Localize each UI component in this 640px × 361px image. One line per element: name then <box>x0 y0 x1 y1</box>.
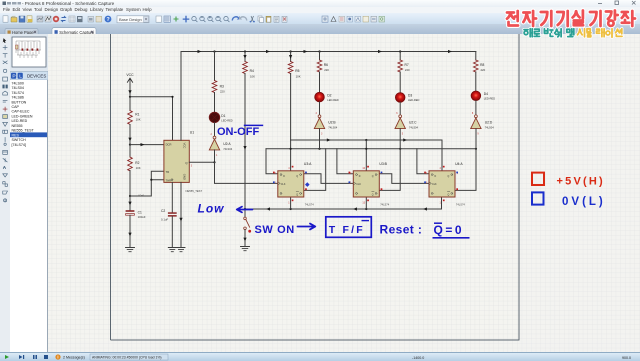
wire U2:C input down to Qbar loop <box>399 129 401 149</box>
node R2/C1/THR junction <box>129 195 131 197</box>
LED D3 (on) <box>395 93 419 103</box>
wire switch top stub <box>244 209 246 217</box>
wire top VCC rail <box>181 51 476 53</box>
node rail R3 <box>213 50 215 52</box>
node rail R6 <box>318 50 320 52</box>
wire U4:A D feed <box>417 149 429 174</box>
node reset/U3:A CLR <box>290 208 292 210</box>
node fb/U3:B loop <box>399 148 401 150</box>
transistor-like inverter U2:A 74LS04 <box>209 133 232 157</box>
wire 555 R pin to top rail <box>180 52 182 141</box>
wire C1 node to TR/THR pins <box>130 171 164 196</box>
node 555 VCC drop <box>171 96 173 98</box>
wire R2 bottom to C1 node <box>129 171 131 197</box>
ground (555) <box>177 248 185 252</box>
flip-flop U3:B 74LS74 <box>349 162 390 206</box>
sheet border <box>111 34 520 340</box>
wire R4 column top <box>244 52 246 62</box>
wire R8 column from rail corner <box>475 52 477 61</box>
legend +5V(H) red <box>532 173 605 188</box>
ground (switch) <box>241 247 250 251</box>
node rail R4 <box>244 50 246 52</box>
wire U3:A CLR stub <box>290 197 292 209</box>
wire D1 to U2:A bubble <box>214 123 216 137</box>
title bar <box>0 0 640 13</box>
wire U3:A D feed <box>266 149 278 174</box>
wire R4 to switch node <box>244 74 246 210</box>
wire C1 top stub <box>129 196 131 210</box>
wire R2 top stub <box>129 145 131 157</box>
resistor R8 <box>473 60 485 72</box>
wire switch to ground <box>244 230 246 247</box>
preview window <box>12 37 46 67</box>
wire junction to 555 DC pin <box>130 144 164 146</box>
resistor R4 <box>243 62 255 79</box>
wire U3:B D feed <box>337 149 353 174</box>
annotation ON-OFF <box>217 125 263 137</box>
wire R3 to D1 <box>214 93 216 113</box>
annotation left arrow <box>237 207 253 213</box>
main toolbar <box>0 13 640 26</box>
status bar <box>0 352 640 361</box>
wire U2:B input down <box>319 129 321 149</box>
node fb/U2:B input <box>318 148 320 150</box>
wire U3:A Qbar loop <box>304 149 326 191</box>
wire C2 to ground <box>171 217 173 248</box>
switch SW (button) <box>244 217 251 233</box>
flip-flop U4:A 74LS74 <box>424 162 465 206</box>
annotation Reset : Q=0 <box>380 223 470 238</box>
inverter U2:C 74LS04 <box>395 112 419 136</box>
capacitor C2 <box>161 209 177 222</box>
node fb/U3:B PR cross <box>365 148 367 150</box>
node rail R7 <box>399 50 401 52</box>
power symbol VCC <box>126 73 134 85</box>
wire R1 top stub <box>129 97 131 111</box>
resistor R2 <box>128 157 141 171</box>
node fb/U2:D input <box>475 148 477 150</box>
annotation right arrow <box>298 224 316 230</box>
wire R1 to junction <box>129 125 131 145</box>
op-amp U1 NE555 body <box>164 140 189 182</box>
resistor R5 <box>288 62 300 79</box>
wire U3:B CLR stub <box>365 197 367 209</box>
left vertical tool strip <box>0 34 11 352</box>
resistor R1 <box>128 111 141 125</box>
wire U2:D input down to Qbar loop <box>475 129 477 149</box>
wire Q node down and to U3:A CLK <box>215 162 278 183</box>
ground (C2) <box>168 248 176 252</box>
wire R5 column top <box>290 52 292 62</box>
wire 555 Q output <box>189 161 214 163</box>
wire R6 column top <box>319 52 321 61</box>
wire U3:B PR stub <box>365 140 367 171</box>
P L DEVICES header <box>10 72 48 81</box>
tab row <box>0 24 640 34</box>
resistor R6 <box>317 60 329 72</box>
wire R6 to D2 <box>319 72 321 92</box>
LED D1 (off) <box>209 112 233 122</box>
node switch/reset junction <box>244 208 246 210</box>
LED D2 (on) <box>315 92 339 102</box>
wire D2 to U2:B <box>319 102 321 115</box>
device list <box>10 80 47 352</box>
node rail R5 <box>290 50 292 52</box>
wire U3:B Q to U4:A CLK <box>379 174 429 184</box>
wire R7 column top <box>399 52 401 61</box>
node reset/U3:B CLR <box>365 208 367 210</box>
wire R3 column top <box>214 52 216 81</box>
wire C1 to ground <box>129 215 131 247</box>
wire D3 to U2:C <box>399 102 401 115</box>
resistor R3 <box>212 81 225 94</box>
wire U3:A PR stub <box>290 140 292 171</box>
wire VCC node to 555 pin8 <box>130 97 173 141</box>
node U2:A input junction <box>213 161 215 163</box>
resistor R7 <box>398 60 410 72</box>
wire D4 to U2:D <box>475 101 477 115</box>
wire U4:A Qbar loop <box>455 149 476 191</box>
inverter U2:B 74LS04 <box>314 112 338 136</box>
ground (C1) <box>126 248 135 252</box>
wire VCC column upper <box>129 85 131 97</box>
node fb/U3:A PR cross <box>290 148 292 150</box>
node TR/THR tee <box>150 179 152 181</box>
capacitor C1 <box>126 210 146 219</box>
left panel: preview + device list <box>10 34 48 352</box>
annotation T F/F box <box>326 217 372 238</box>
node VCC/R1 junction <box>129 96 131 98</box>
wire reset rail to U4:A CLR <box>245 197 442 209</box>
wire R5 to PR rail <box>290 74 292 141</box>
wire 555 GND pin to ground <box>180 182 182 247</box>
wire 555 CV pin to C2 <box>171 182 173 212</box>
legend 0V(L) blue <box>532 192 606 207</box>
flip-flop U3:A 74LS74 <box>273 162 314 206</box>
node R1/R2 junction <box>129 144 131 146</box>
LED D4 (on) <box>471 91 495 101</box>
inverter U2:D 74LS04 <box>471 112 495 136</box>
wire feedback rail <box>266 148 476 150</box>
wire PR rail <box>291 140 442 171</box>
wire R7 to D3 <box>399 72 401 93</box>
node PR rail U3:B <box>365 139 367 141</box>
wire U3:A Q to U3:B CLK <box>304 174 354 184</box>
wire U2:A input to 555 Q node <box>214 150 216 162</box>
wire R8 to D4 <box>475 72 477 91</box>
wire U3:B Qbar loop <box>379 149 400 191</box>
node U3:A Q voltage marker <box>305 182 310 187</box>
